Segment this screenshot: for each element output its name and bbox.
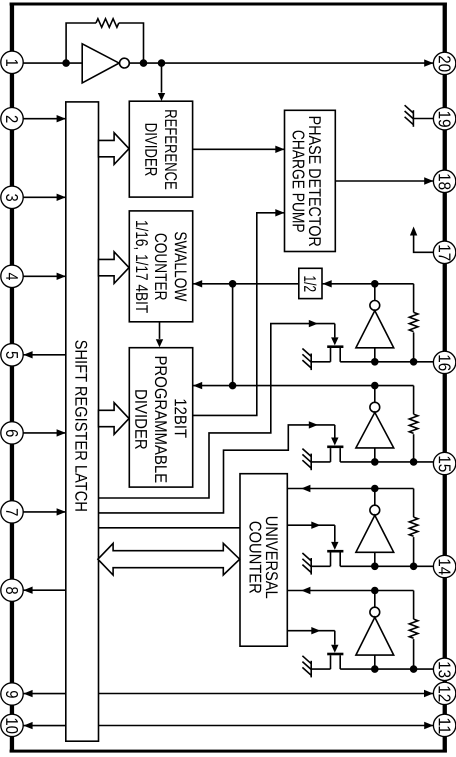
pin 3 number — [6, 194, 18, 201]
pin 1 number — [6, 60, 18, 66]
wire triangle base to pin16 line — [374, 348, 376, 362]
gate arrow shaft pin16 — [334, 324, 336, 338]
pin 12 number — [439, 686, 451, 701]
label 12BIT — [175, 399, 187, 437]
label DIVIDER (programmable) — [135, 390, 147, 449]
label SHIFT REGISTER LATCH — [75, 340, 87, 510]
gate arrow into MOSFET pin15 — [331, 438, 338, 446]
wire swallow counter to programmable divider — [159, 322, 161, 339]
wire to swallow counter input — [193, 283, 233, 285]
pin 4 number — [6, 273, 18, 280]
wire latch to pin9 — [23, 693, 66, 695]
inverter buffer triangle pin14 — [356, 515, 394, 552]
gate arrow into MOSFET pin16 — [331, 337, 338, 345]
MOSFET source leg pin15 — [330, 448, 332, 462]
arrow into pin11 — [424, 722, 433, 729]
wire pin16 cell top net — [322, 283, 414, 285]
arrow on pin15 gate wire — [309, 421, 318, 428]
pin 10 number — [6, 719, 18, 734]
wire pin15 line — [340, 461, 433, 463]
MOSFET mute transistor pin13 cell: gate bar — [327, 653, 343, 656]
feedback resistor pin13 cell — [409, 619, 418, 638]
pin 14 — [433, 555, 455, 577]
arrow into pin9 — [23, 690, 32, 697]
resistor bottom lead pin13 cell — [413, 639, 415, 669]
pin 9 number — [6, 691, 18, 698]
wire pin14 line — [340, 565, 433, 567]
wire pin19 to ground — [413, 118, 433, 120]
wire reference divider to phase detector — [193, 148, 285, 150]
arrow into pin12 — [424, 690, 433, 697]
wire triangle base to pin14 line — [374, 552, 376, 566]
wire bubble lead pin16 buffer — [374, 284, 376, 301]
wire triangle base to pin13 line — [374, 655, 376, 669]
block: SHIFT REGISTER LATCH — [66, 102, 99, 741]
wire latch to pin12 — [99, 693, 434, 695]
junction node pin1/feedback — [62, 59, 70, 67]
arrow into universal counter from pin14 buffer — [301, 485, 310, 492]
inverter U1 output bubble — [120, 58, 130, 68]
hollow double-headed bus arrow latch/universal counter — [98, 543, 240, 575]
pin 5 number — [6, 352, 18, 359]
arrow into latch from pin2 — [57, 115, 66, 122]
pin 18 number — [439, 174, 451, 189]
feedback wire left leg — [66, 23, 96, 63]
block: 12BIT PROGRAMMABLE DIVIDER — [129, 348, 192, 487]
junction node pin15 top net — [371, 382, 379, 390]
MOSFET mute transistor pin15 cell: gate bar — [327, 446, 343, 449]
hollow bus arrow latch to programmable divider — [99, 403, 130, 435]
wire latch to pin5 — [23, 354, 66, 356]
pin 12 — [433, 682, 455, 704]
label PHASE DETECTOR — [309, 117, 321, 246]
wire pin3 to shift register latch — [23, 196, 66, 198]
wire latch to pin10 — [23, 725, 66, 727]
arrow into programmable divider input — [193, 382, 202, 389]
arrow into latch from pin7 — [57, 508, 66, 515]
pin 7 number — [6, 509, 18, 516]
label COUNTER (universal) — [249, 522, 261, 593]
arrow into phase detector input 2 — [275, 209, 284, 216]
pin 18 — [433, 170, 455, 192]
pin 16 number — [439, 355, 451, 370]
arrow on pin16 gate wire — [309, 320, 318, 327]
inverter buffer triangle pin13 — [356, 617, 394, 655]
junction node pin16 line / buffer input — [371, 358, 379, 366]
wire MOSFET source to ground pin14 — [311, 565, 330, 567]
wire pin17 service arrow — [414, 236, 434, 253]
wire pin7 to shift register latch — [23, 511, 66, 513]
resistor bottom lead pin14 cell — [413, 537, 415, 566]
pin 8 number — [6, 587, 18, 594]
junction node pin14 top net — [371, 485, 379, 493]
arrow on pin14 gate wire — [311, 522, 320, 529]
gate arrow shaft pin13 — [334, 631, 336, 645]
wire pin15 cell top net — [233, 385, 414, 387]
ground symbol at pin19 — [405, 105, 414, 127]
gate arrow shaft pin14 — [334, 525, 336, 542]
wire programmable divider output to phase detector — [193, 213, 285, 416]
ground symbol pin14 cell — [302, 553, 311, 575]
inverter buffer triangle pin15 — [356, 412, 394, 448]
label UNIVERSAL — [266, 517, 278, 598]
label 1/2 — [304, 276, 316, 291]
pin 20 — [433, 52, 455, 74]
pin 10 — [1, 714, 23, 736]
pin 1 — [1, 51, 23, 73]
feedback wire right leg — [119, 23, 144, 63]
block: REFERENCE DIVIDER — [129, 101, 192, 197]
resistor bottom lead pin16 cell — [413, 332, 415, 361]
arrow into reference divider top — [158, 93, 165, 101]
hollow bus arrow latch to reference divider — [99, 133, 130, 165]
label COUNTER (swallow) — [155, 234, 167, 300]
pin 11 — [433, 714, 455, 736]
wire bubble lead pin15 buffer — [374, 386, 376, 403]
MOSFET mute transistor pin14 cell: gate bar — [327, 550, 343, 553]
package frame top border — [10, 3, 447, 6]
ground symbol pin15 cell — [302, 449, 311, 471]
MOSFET drain leg pin16 — [339, 348, 341, 362]
inverter buffer bubble pin16 — [370, 301, 380, 311]
wire MOSFET source to ground pin13 — [311, 668, 330, 670]
wire 1/2 divider output — [233, 283, 299, 285]
MOSFET source leg pin14 — [330, 553, 332, 567]
MOSFET source leg pin13 — [330, 655, 332, 669]
pin 13 number — [439, 662, 451, 677]
block: SWALLOW COUNTER — [129, 211, 192, 322]
junction node pin13 line / buffer input — [371, 665, 379, 673]
pin 13 — [433, 658, 455, 680]
label 1/16, 1/17 4BIT — [134, 221, 149, 313]
arrow into 1/2 divider from pin16 buffer — [323, 280, 332, 287]
pin 17 number — [439, 245, 451, 260]
junction node pin13 top net — [371, 587, 379, 595]
pin 2 number — [6, 116, 18, 123]
feedback resistor pin16 cell — [409, 312, 418, 331]
wire bubble lead pin13 buffer — [374, 591, 376, 608]
resistor top lead pin14 cell — [413, 489, 415, 518]
junction node pin14 line / resistor — [410, 563, 418, 571]
pin 16 — [433, 351, 455, 373]
feedback resistor R1 — [96, 19, 119, 28]
arrow on pin13 gate wire — [311, 627, 320, 634]
arrow into latch from pin4 — [57, 273, 66, 280]
pin 15 — [433, 452, 455, 474]
control wire latch to pin16 cell gate — [99, 324, 335, 498]
block: 1/2 divider — [299, 268, 322, 298]
ground symbol pin13 cell — [302, 656, 311, 678]
label REFERENCE — [165, 110, 177, 189]
MOSFET source leg pin16 — [330, 348, 332, 362]
pin 20 number — [439, 56, 451, 72]
wire universal counter to pin14 cell gate — [287, 524, 335, 526]
junction node pin16 line / resistor — [410, 358, 418, 366]
junction node pin13 line / resistor — [410, 665, 418, 673]
wire pin6 to shift register latch — [23, 432, 66, 434]
package frame left pin rail — [10, 3, 14, 753]
arrow into pin8 — [23, 587, 32, 594]
wire node to programmable divider input — [232, 284, 234, 386]
pin 4 — [1, 265, 23, 287]
MOSFET drain leg pin14 — [339, 553, 341, 567]
wire into programmable divider input — [193, 385, 233, 387]
inverter buffer bubble pin13 — [370, 607, 380, 617]
wire pin13 line — [340, 668, 433, 670]
MOSFET drain leg pin15 — [339, 448, 341, 462]
wire pin4 to shift register latch — [23, 275, 66, 277]
arrow into phase detector input 1 — [275, 146, 284, 153]
wire MOSFET source to ground pin16 — [311, 361, 330, 363]
wire MOSFET source to ground pin15 — [311, 461, 330, 463]
inverter buffer triangle pin16 — [356, 311, 394, 348]
wire bubble lead pin14 buffer — [374, 489, 376, 506]
arrow into latch from pin6 — [57, 429, 66, 436]
pin 11 number — [439, 719, 451, 734]
block: UNIVERSAL COUNTER — [240, 474, 287, 647]
gate arrow into MOSFET pin13 — [331, 645, 338, 653]
wire universal counter to pin13 cell gate — [287, 630, 335, 632]
arrow into pin5 — [23, 351, 32, 358]
arrow into universal counter from pin13 buffer — [301, 587, 310, 594]
junction node pin16 top net — [371, 280, 379, 288]
hollow bus arrow latch to swallow counter — [99, 252, 130, 284]
pin 6 number — [6, 430, 18, 437]
up arrow at pin17 — [410, 227, 417, 236]
arrow into latch from pin3 — [57, 194, 66, 201]
pin 3 — [1, 186, 23, 208]
block: PHASE DETECTOR CHARGE PUMP — [285, 110, 336, 251]
label SWALLOW — [175, 232, 187, 301]
feedback resistor pin14 cell — [409, 517, 418, 536]
resistor bottom lead pin15 cell — [413, 434, 415, 462]
pin 2 — [1, 108, 23, 130]
gate arrow into MOSFET pin14 — [331, 542, 338, 550]
wire pin16 line — [340, 361, 433, 363]
control wire latch to pin15 cell gate — [99, 425, 335, 513]
arrow into pin10 — [23, 722, 32, 729]
wire pin14 cell top net — [287, 488, 413, 490]
pin 6 — [1, 422, 23, 444]
arrow into programmable divider top — [156, 339, 163, 347]
oscillator inverter U1 — [82, 44, 119, 83]
control wire latch to universal counter — [99, 527, 241, 529]
junction node pin15 line / buffer input — [371, 458, 379, 466]
package frame right pin rail — [443, 3, 447, 753]
wire pin13 cell top net — [287, 590, 413, 592]
MOSFET mute transistor pin16 cell: gate bar — [327, 345, 343, 348]
junction node divider input — [229, 382, 237, 390]
inverter buffer bubble pin15 — [370, 402, 380, 412]
label DIVIDER (reference) — [145, 124, 157, 176]
pin 19 number — [439, 112, 451, 127]
wire inverter output to pin20 — [129, 62, 433, 64]
pin 8 — [1, 579, 23, 601]
arrow into pin18 — [424, 177, 433, 184]
wire triangle base to pin15 line — [374, 448, 376, 462]
arrow into swallow counter input — [193, 280, 202, 287]
inverter buffer bubble pin14 — [370, 505, 380, 515]
wire latch to pin11 — [99, 725, 434, 727]
ground symbol pin16 cell — [302, 349, 311, 371]
resistor top lead pin16 cell — [413, 284, 415, 313]
pin 19 — [433, 108, 455, 130]
pin 17 — [433, 241, 455, 263]
package frame bottom border — [10, 750, 447, 753]
pin 5 — [1, 344, 23, 366]
resistor top lead pin15 cell — [413, 386, 415, 415]
gate arrow shaft pin15 — [334, 425, 336, 438]
wire tap down to reference divider — [161, 63, 163, 93]
pin 15 number — [439, 457, 451, 472]
wire pin2 to shift register latch — [23, 118, 66, 120]
MOSFET drain leg pin13 — [339, 655, 341, 669]
wire phase detector output to pin18 — [335, 180, 433, 182]
arrow into pin20 — [424, 59, 433, 66]
junction node reference tap — [158, 59, 166, 67]
junction node 1/2 output — [229, 280, 237, 288]
junction node pin15 line / resistor — [410, 458, 418, 466]
pin 7 — [1, 501, 23, 523]
wire latch to pin8 — [23, 589, 66, 591]
label PROGRAMMABLE — [155, 357, 167, 483]
feedback resistor pin15 cell — [409, 414, 418, 433]
wire pin1 to oscillator inverter input — [23, 62, 82, 64]
junction node pin14 line / buffer input — [371, 563, 379, 571]
pin 9 — [1, 683, 23, 705]
label CHARGE PUMP — [292, 131, 304, 232]
pin 14 number — [439, 560, 451, 575]
resistor top lead pin13 cell — [413, 591, 415, 620]
junction node feedback/output — [140, 59, 148, 67]
